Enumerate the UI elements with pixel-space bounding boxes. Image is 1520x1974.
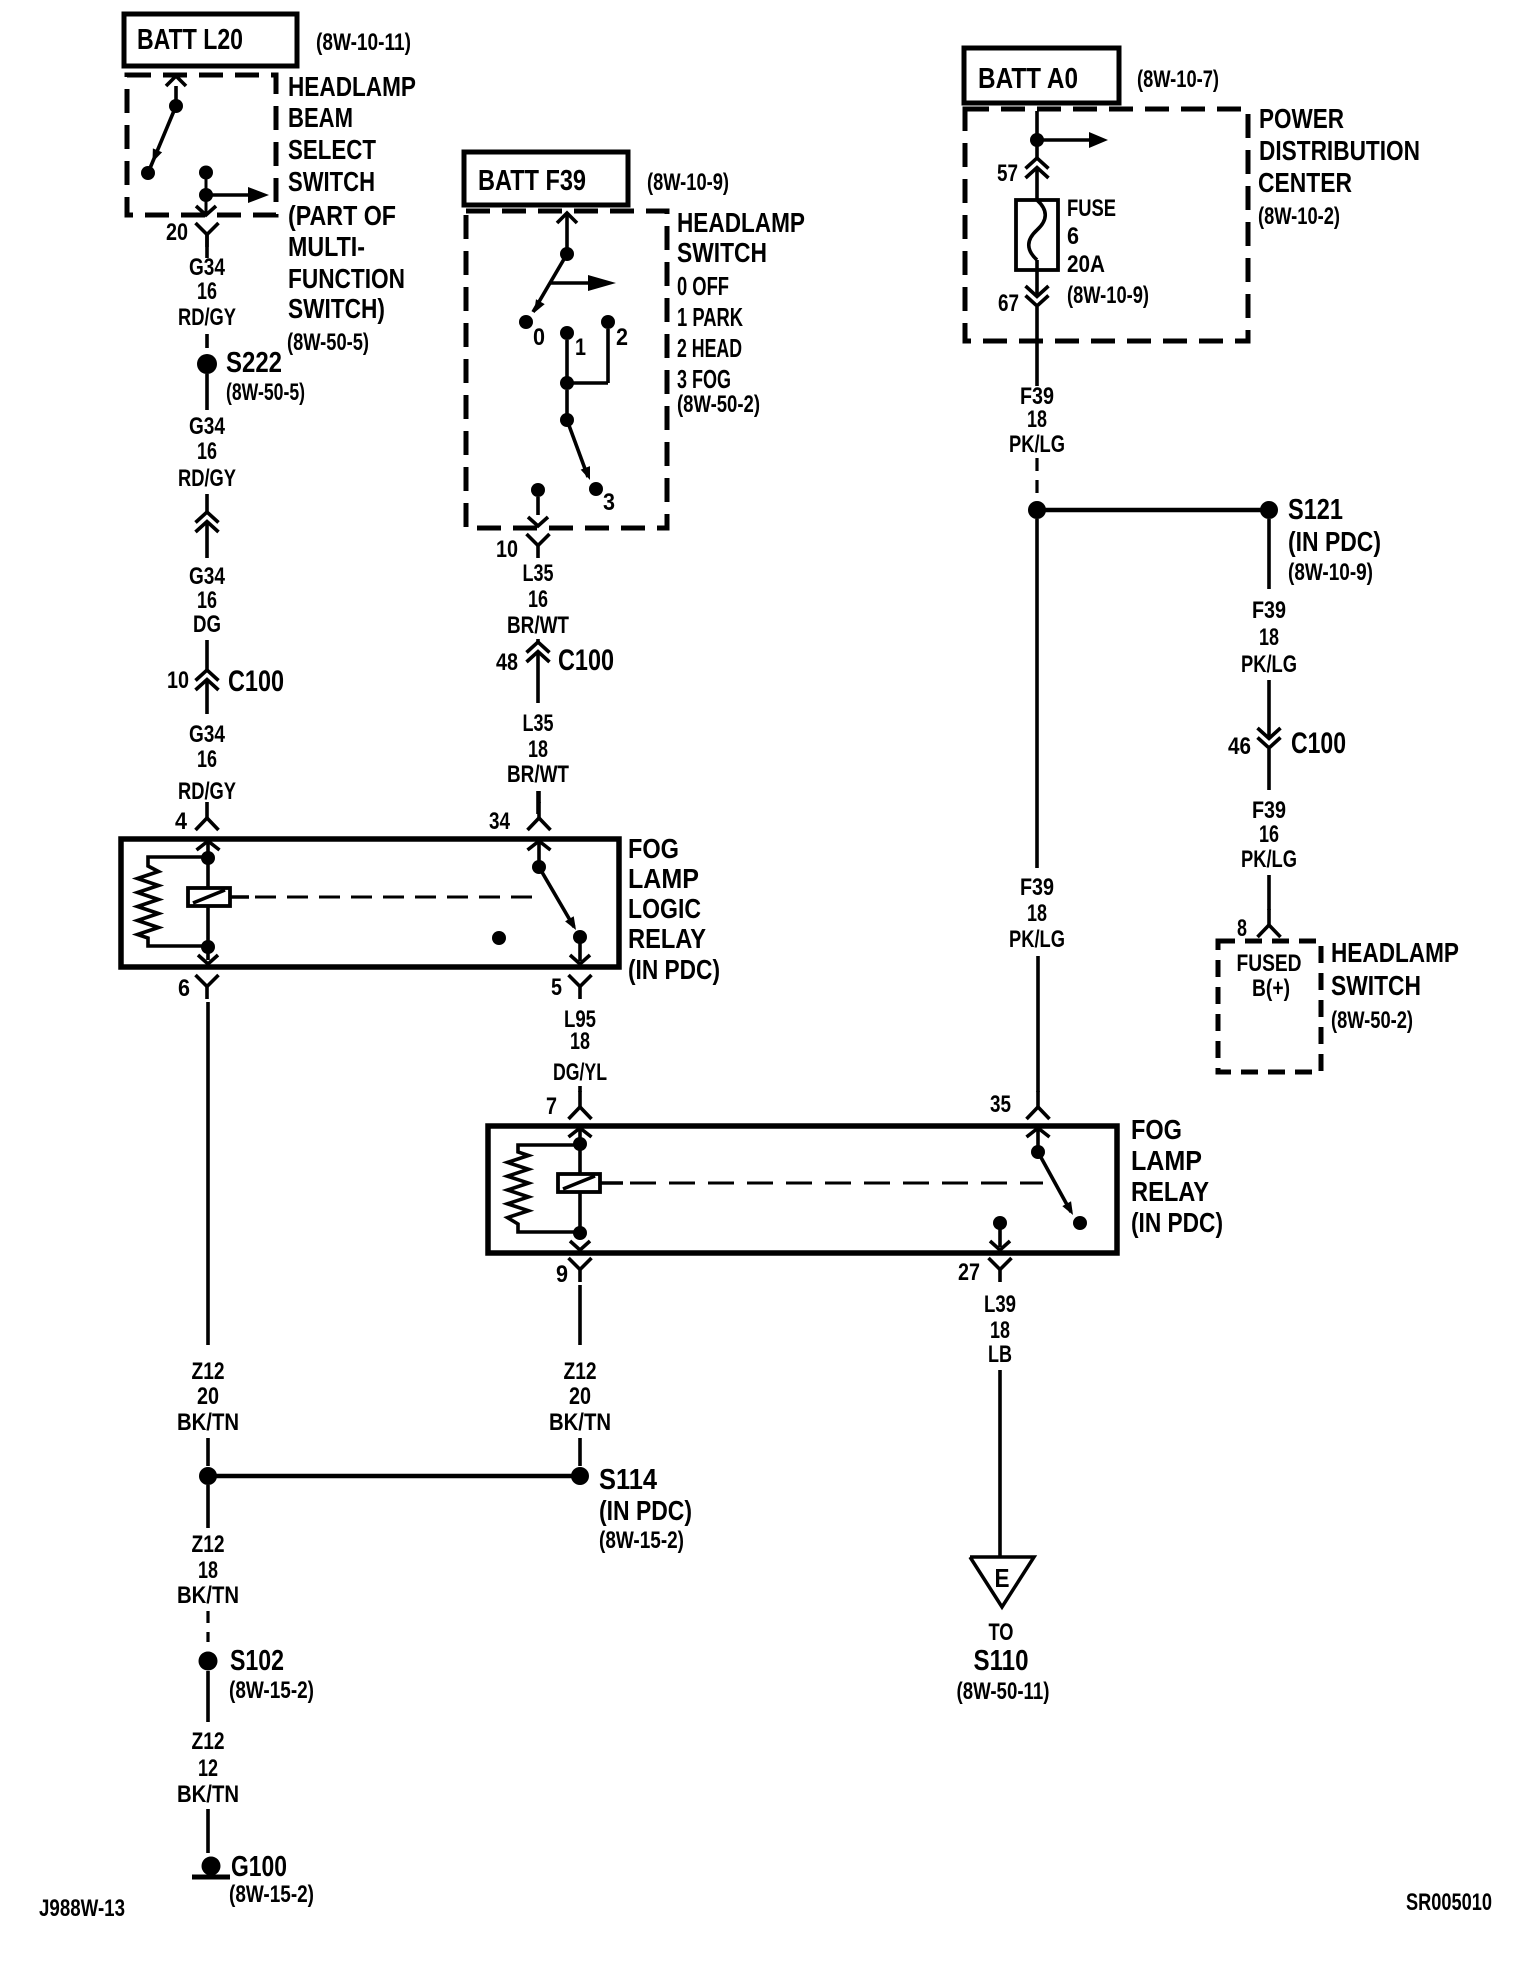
svg-text:Z12: Z12 — [192, 1728, 225, 1755]
svg-text:27: 27 — [958, 1259, 980, 1286]
svg-text:RD/GY: RD/GY — [178, 304, 236, 331]
svg-text:C100: C100 — [558, 644, 614, 677]
svg-text:BK/TN: BK/TN — [549, 1409, 611, 1436]
svg-text:FOG: FOG — [628, 833, 679, 864]
svg-text:16: 16 — [197, 587, 217, 614]
svg-text:C100: C100 — [228, 665, 284, 698]
svg-text:BATT A0: BATT A0 — [978, 63, 1078, 95]
svg-text:34: 34 — [489, 808, 511, 835]
svg-text:(8W-10-9): (8W-10-9) — [1067, 282, 1149, 309]
svg-text:S222: S222 — [226, 347, 282, 379]
svg-text:(PART OF: (PART OF — [288, 200, 396, 231]
svg-text:1 PARK: 1 PARK — [677, 302, 743, 332]
svg-text:POWER: POWER — [1259, 103, 1344, 134]
svg-text:20A: 20A — [1067, 251, 1105, 278]
svg-text:16: 16 — [197, 438, 217, 465]
svg-text:SWITCH: SWITCH — [1331, 970, 1421, 1001]
svg-text:FUSED: FUSED — [1237, 950, 1302, 977]
svg-text:L35: L35 — [523, 560, 554, 587]
svg-text:PK/LG: PK/LG — [1241, 846, 1297, 873]
svg-text:DG: DG — [193, 611, 221, 638]
svg-text:L35: L35 — [523, 710, 554, 737]
svg-text:CENTER: CENTER — [1258, 167, 1352, 198]
svg-text:(8W-10-9): (8W-10-9) — [1288, 559, 1373, 586]
svg-text:18: 18 — [1259, 624, 1279, 651]
svg-text:L39: L39 — [984, 1291, 1016, 1318]
svg-text:SR005010: SR005010 — [1406, 1889, 1492, 1916]
svg-text:PK/LG: PK/LG — [1009, 926, 1065, 953]
svg-text:S102: S102 — [230, 1645, 284, 1677]
svg-text:2: 2 — [616, 324, 628, 351]
svg-text:SWITCH): SWITCH) — [288, 293, 385, 324]
svg-text:HEADLAMP: HEADLAMP — [1331, 937, 1459, 968]
svg-text:18: 18 — [528, 736, 548, 763]
svg-text:(8W-50-2): (8W-50-2) — [1331, 1007, 1413, 1034]
svg-text:RELAY: RELAY — [1131, 1176, 1209, 1207]
svg-text:BK/TN: BK/TN — [177, 1781, 239, 1808]
svg-text:20: 20 — [569, 1383, 591, 1410]
svg-text:0: 0 — [533, 324, 545, 351]
svg-text:18: 18 — [570, 1028, 590, 1055]
svg-text:G34: G34 — [189, 563, 226, 590]
svg-text:16: 16 — [1259, 821, 1279, 848]
svg-text:BEAM: BEAM — [288, 102, 353, 133]
svg-text:Z12: Z12 — [564, 1358, 597, 1385]
svg-text:67: 67 — [998, 290, 1019, 317]
svg-text:SWITCH: SWITCH — [677, 237, 767, 268]
svg-text:G34: G34 — [189, 254, 226, 281]
svg-text:F39: F39 — [1020, 874, 1054, 901]
svg-text:SWITCH: SWITCH — [288, 166, 375, 197]
svg-text:9: 9 — [556, 1261, 568, 1288]
svg-text:FOG: FOG — [1131, 1114, 1182, 1145]
svg-text:20: 20 — [166, 219, 188, 246]
svg-text:RD/GY: RD/GY — [178, 778, 236, 805]
svg-text:PK/LG: PK/LG — [1009, 431, 1065, 458]
svg-text:S121: S121 — [1288, 494, 1343, 526]
svg-text:8: 8 — [1237, 915, 1247, 942]
svg-text:C100: C100 — [1291, 727, 1346, 760]
svg-text:FUNCTION: FUNCTION — [288, 263, 405, 294]
svg-text:TO: TO — [989, 1619, 1014, 1646]
svg-text:20: 20 — [197, 1383, 219, 1410]
svg-text:57: 57 — [997, 160, 1018, 187]
svg-text:(8W-50-11): (8W-50-11) — [957, 1678, 1050, 1705]
svg-text:3 FOG: 3 FOG — [677, 364, 731, 394]
svg-text:5: 5 — [551, 974, 562, 1001]
svg-text:BK/TN: BK/TN — [177, 1582, 239, 1609]
svg-text:BATT L20: BATT L20 — [137, 24, 243, 56]
svg-text:(8W-15-2): (8W-15-2) — [229, 1677, 314, 1704]
svg-text:BR/WT: BR/WT — [507, 761, 569, 788]
svg-text:G100: G100 — [231, 1851, 287, 1883]
svg-text:(8W-50-5): (8W-50-5) — [287, 329, 369, 356]
svg-text:4: 4 — [175, 808, 188, 835]
svg-text:12: 12 — [198, 1755, 218, 1782]
svg-text:G34: G34 — [189, 413, 226, 440]
svg-text:18: 18 — [1027, 406, 1047, 433]
svg-text:BATT F39: BATT F39 — [478, 165, 586, 197]
svg-text:E: E — [995, 1563, 1010, 1593]
svg-text:SELECT: SELECT — [288, 134, 376, 165]
svg-text:DG/YL: DG/YL — [553, 1059, 607, 1086]
svg-text:(8W-10-7): (8W-10-7) — [1137, 66, 1219, 93]
svg-text:FUSE: FUSE — [1067, 195, 1116, 222]
svg-text:0 OFF: 0 OFF — [677, 271, 729, 301]
svg-text:(IN PDC): (IN PDC) — [1131, 1207, 1223, 1238]
svg-text:(8W-10-9): (8W-10-9) — [647, 169, 729, 196]
svg-text:18: 18 — [1027, 900, 1047, 927]
svg-text:S114: S114 — [599, 1464, 657, 1496]
svg-text:1: 1 — [575, 334, 586, 361]
svg-text:LAMP: LAMP — [1131, 1145, 1202, 1176]
svg-text:HEADLAMP: HEADLAMP — [288, 71, 416, 102]
svg-text:(IN PDC): (IN PDC) — [1288, 526, 1381, 557]
svg-text:DISTRIBUTION: DISTRIBUTION — [1259, 135, 1420, 166]
svg-text:(IN PDC): (IN PDC) — [628, 954, 720, 985]
svg-text:PK/LG: PK/LG — [1241, 651, 1297, 678]
svg-text:F39: F39 — [1252, 597, 1286, 624]
svg-text:6: 6 — [1067, 223, 1079, 250]
svg-text:16: 16 — [197, 746, 217, 773]
svg-text:(8W-10-11): (8W-10-11) — [316, 29, 411, 56]
svg-text:16: 16 — [528, 586, 548, 613]
svg-text:Z12: Z12 — [192, 1358, 225, 1385]
svg-text:(IN PDC): (IN PDC) — [599, 1495, 692, 1526]
svg-text:G34: G34 — [189, 721, 226, 748]
svg-text:10: 10 — [496, 536, 518, 563]
svg-text:LAMP: LAMP — [628, 863, 699, 894]
svg-text:BR/WT: BR/WT — [507, 612, 569, 639]
svg-text:HEADLAMP: HEADLAMP — [677, 207, 805, 238]
svg-text:S110: S110 — [974, 1645, 1029, 1677]
svg-text:(8W-50-5): (8W-50-5) — [226, 379, 305, 406]
svg-text:LOGIC: LOGIC — [628, 893, 701, 924]
svg-text:RD/GY: RD/GY — [178, 465, 236, 492]
svg-text:46: 46 — [1228, 733, 1251, 760]
svg-text:10: 10 — [167, 667, 189, 694]
svg-text:MULTI-: MULTI- — [288, 231, 365, 262]
svg-text:(8W-50-2): (8W-50-2) — [677, 391, 760, 418]
svg-text:(8W-15-2): (8W-15-2) — [229, 1881, 314, 1908]
svg-text:3: 3 — [603, 489, 615, 516]
svg-text:18: 18 — [990, 1317, 1010, 1344]
svg-text:Z12: Z12 — [192, 1531, 225, 1558]
svg-text:RELAY: RELAY — [628, 923, 706, 954]
svg-text:LB: LB — [988, 1341, 1012, 1368]
svg-text:16: 16 — [197, 278, 217, 305]
svg-text:F39: F39 — [1252, 797, 1286, 824]
svg-text:6: 6 — [178, 975, 190, 1002]
svg-text:(8W-15-2): (8W-15-2) — [599, 1527, 684, 1554]
svg-text:BK/TN: BK/TN — [177, 1409, 239, 1436]
svg-text:48: 48 — [496, 649, 518, 676]
svg-text:18: 18 — [198, 1557, 218, 1584]
svg-text:2 HEAD: 2 HEAD — [677, 333, 742, 363]
svg-text:J988W-13: J988W-13 — [39, 1895, 125, 1922]
svg-text:35: 35 — [990, 1091, 1011, 1118]
svg-text:7: 7 — [546, 1093, 557, 1120]
svg-text:(8W-10-2): (8W-10-2) — [1258, 203, 1340, 230]
svg-text:B(+): B(+) — [1252, 975, 1290, 1002]
